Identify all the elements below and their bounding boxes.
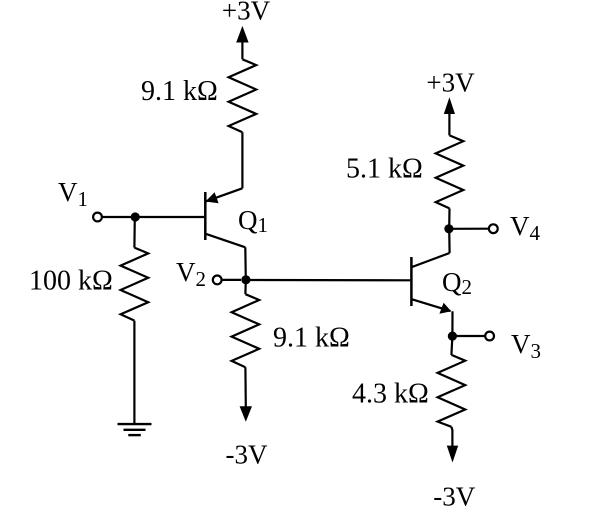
transistor Q1 (PNP)	[205, 188, 268, 247]
wire V1 to Q1 base	[103, 216, 205, 218]
node V2 terminal circle	[213, 276, 222, 285]
svg-text:V3: V3	[511, 329, 541, 363]
ground symbol	[118, 424, 152, 435]
Q1 emitter arrow (points into base bar: PNP)	[206, 192, 219, 203]
Q2 collector diagonal	[412, 253, 450, 267]
Q1 base bar	[204, 192, 207, 240]
svg-text:4.3 kΩ: 4.3 kΩ	[352, 379, 429, 410]
wire V2 to Q2 base	[246, 279, 410, 281]
wire 4.3k to -3V arrow	[451, 427, 452, 446]
wire 9.1k to -3V arrow	[244, 367, 247, 406]
svg-text:Q2: Q2	[442, 267, 472, 299]
resistor R 9.1k (middle, to -3V)	[232, 294, 260, 367]
junction dot at V1 node	[131, 212, 140, 221]
wire V3 down to 4.3k	[451, 336, 452, 355]
Q2 emitter arrow (points outward: NPN)	[439, 303, 451, 314]
power -3V arrow (middle)	[240, 406, 252, 422]
node V3 terminal circle	[485, 332, 494, 341]
svg-text:9.1 kΩ: 9.1 kΩ	[273, 323, 350, 354]
svg-text:100 kΩ: 100 kΩ	[29, 266, 113, 297]
svg-text:V2: V2	[176, 257, 206, 291]
wire V2 circle to junction	[222, 279, 241, 281]
svg-text:+3V: +3V	[222, 0, 271, 26]
svg-text:-3V: -3V	[433, 482, 475, 512]
node V1 terminal circle	[93, 213, 102, 222]
resistor R 9.1k (top, emitter load of Q1)	[229, 59, 257, 132]
Q1 collector diagonal	[205, 234, 245, 248]
transistor Q2 (NPN)	[411, 229, 472, 336]
wire V2 down to 9.1k	[244, 280, 247, 294]
power +3V arrow (left rail)	[236, 26, 248, 59]
power -3V arrow (right)	[447, 446, 458, 463]
wire V3 junction to terminal	[452, 335, 484, 337]
Q2 emitter diagonal	[412, 299, 451, 311]
svg-text:5.1 kΩ: 5.1 kΩ	[346, 154, 423, 185]
junction dot V4	[444, 224, 453, 233]
svg-text:Q1: Q1	[238, 205, 268, 237]
resistor R 100k (input bias)	[121, 248, 149, 321]
wire junction down to 100k	[133, 217, 136, 248]
svg-text:+3V: +3V	[426, 68, 475, 98]
junction dot V3	[448, 332, 457, 341]
junction dot V2	[241, 275, 250, 284]
resistor R 5.1k (collector load of Q2)	[436, 135, 464, 208]
svg-text:V1: V1	[58, 177, 88, 211]
resistor R 4.3k (emitter of Q2, to -3V)	[438, 355, 466, 427]
wire 100k to ground	[133, 321, 135, 423]
Q2 collector wire from V4 node	[448, 229, 451, 253]
wire V4 junction to terminal	[449, 228, 488, 230]
node V4 terminal circle	[489, 224, 498, 233]
wire Q1 collector down to node V2	[244, 247, 247, 280]
wire 5.1k to node V4	[448, 208, 450, 229]
power +3V arrow (right rail)	[444, 97, 455, 135]
svg-text:-3V: -3V	[226, 440, 268, 470]
Q1 emitter diagonal	[206, 188, 242, 201]
Q2 base bar	[410, 257, 413, 306]
wire resistor to Q1 emitter	[241, 132, 243, 188]
svg-text:V4: V4	[510, 211, 541, 245]
Q2 emitter wire down to V3 node	[451, 311, 453, 336]
svg-text:9.1 kΩ: 9.1 kΩ	[141, 76, 218, 107]
